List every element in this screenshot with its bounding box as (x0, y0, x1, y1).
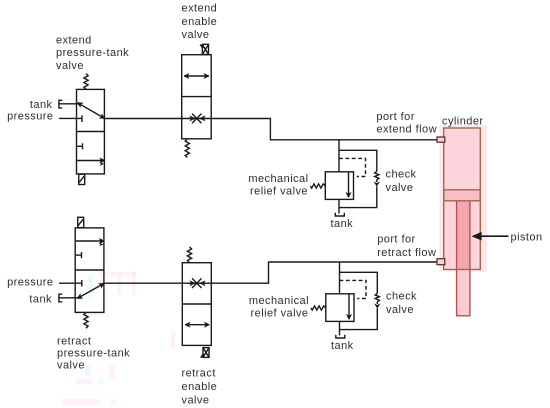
svg-text:pressure-tank: pressure-tank (57, 348, 130, 360)
svg-text:pressure: pressure (7, 276, 53, 288)
svg-text:retract: retract (182, 368, 216, 380)
svg-text:tank: tank (29, 294, 52, 306)
svg-text:pressure: pressure (7, 110, 53, 122)
svg-text:cylinder: cylinder (442, 115, 484, 127)
svg-text:piston: piston (511, 232, 543, 244)
svg-text:mechanical: mechanical (248, 173, 308, 185)
svg-text:check: check (386, 169, 417, 181)
svg-text:extend flow: extend flow (376, 124, 437, 136)
svg-text:port for: port for (376, 111, 414, 123)
svg-text:port for: port for (377, 234, 415, 246)
svg-text:enable: enable (182, 16, 218, 28)
svg-text:pressure-tank: pressure-tank (56, 47, 129, 59)
svg-text:relief valve: relief valve (250, 185, 308, 197)
svg-text:valve: valve (57, 360, 85, 372)
svg-text:valve: valve (386, 182, 414, 194)
svg-text:retract flow: retract flow (377, 247, 436, 259)
svg-text:tank: tank (331, 218, 354, 230)
svg-text:valve: valve (182, 29, 210, 41)
svg-text:extend: extend (182, 3, 218, 15)
svg-text:tank: tank (30, 99, 53, 111)
svg-text:valve: valve (182, 394, 210, 406)
svg-text:valve: valve (56, 60, 84, 72)
svg-text:enable: enable (182, 381, 218, 393)
svg-text:extend: extend (56, 35, 92, 47)
svg-text:retract: retract (57, 336, 91, 348)
